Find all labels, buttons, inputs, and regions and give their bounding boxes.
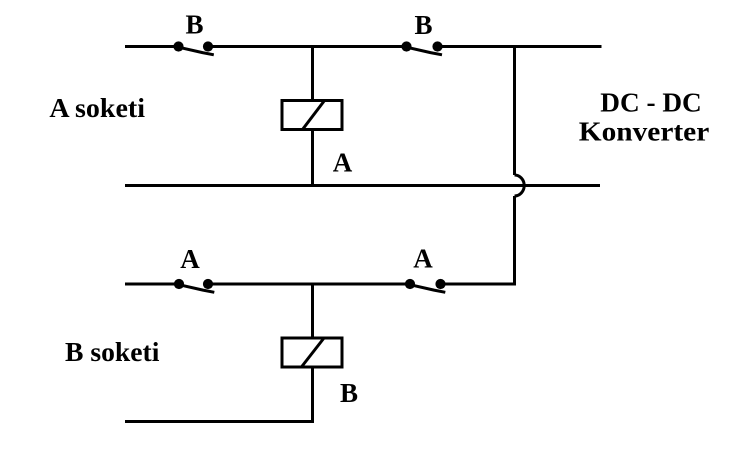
switch B1 blade (179, 47, 214, 55)
switch B1 contact dot right (203, 41, 213, 51)
switch B1 contact dot left (173, 41, 183, 51)
switch A1 blade (179, 285, 214, 293)
svg-text:A: A (180, 244, 200, 274)
wire crossing hop (515, 175, 525, 196)
svg-text:DC - DC: DC - DC (600, 87, 702, 117)
relay coil B body (282, 338, 342, 367)
switch B2 contact dot left (401, 41, 411, 51)
svg-text:A soketi: A soketi (49, 93, 145, 123)
wire relay-A bottom stub (311, 131, 314, 185)
wire top-right segment (438, 45, 602, 48)
wire relay-B top stub (311, 284, 314, 337)
svg-text:A: A (413, 244, 433, 274)
svg-text:B soketi: B soketi (65, 337, 160, 367)
switch A1 contact dot left (174, 279, 184, 289)
relay coil A body (282, 101, 342, 130)
switch B2 contact dot right (432, 41, 442, 51)
wire middle horizontal (125, 184, 600, 187)
wire DC vertical lower (513, 196, 516, 286)
wire bottom horizontal (125, 420, 314, 423)
switch A1 contact dot right (203, 279, 213, 289)
switch A2 contact dot right (435, 279, 445, 289)
relay coil A diagonal (303, 101, 325, 130)
wire top-middle segment (208, 45, 408, 48)
wire DC vertical upper (513, 47, 516, 176)
wire lower-right segment (441, 283, 517, 286)
svg-text:B: B (414, 10, 432, 40)
relay coil B diagonal (302, 338, 324, 367)
switch B2 blade (407, 47, 443, 55)
switch A2 contact dot left (405, 279, 415, 289)
svg-text:Konverter: Konverter (579, 117, 710, 147)
wire lower-middle segment (208, 283, 411, 286)
wire top-left segment (125, 45, 179, 48)
wire lower-left segment (125, 283, 179, 286)
wire relay-B bottom stub (311, 368, 314, 422)
wire relay-A top stub (311, 47, 314, 100)
svg-text:A: A (333, 147, 353, 177)
switch A2 blade (410, 285, 445, 293)
svg-text:B: B (340, 378, 358, 408)
svg-text:B: B (185, 10, 203, 40)
